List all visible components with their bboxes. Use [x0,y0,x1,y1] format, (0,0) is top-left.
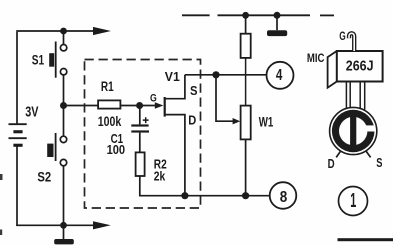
svg-text:D: D [188,114,196,128]
gate lead hook G [349,33,354,51]
switch S1 [49,31,67,103]
svg-text:S: S [376,156,382,170]
wire left battery rail [16,32,18,226]
wire source to terminal 4 [185,74,267,76]
svg-text:1: 1 [350,190,356,212]
wire junction to R1 [64,105,99,107]
junction node W1-rail [242,192,249,199]
edge artifact upper [0,174,3,180]
terminal circle 4 [267,62,294,89]
dashed module box [85,60,201,209]
svg-text:V1: V1 [165,69,180,84]
svg-text:S2: S2 [37,169,51,184]
svg-text:8: 8 [280,189,288,206]
junction node gate [136,102,143,109]
page rule bottom right [338,238,393,241]
junction node ground top [274,12,281,19]
svg-text:266J: 266J [346,58,374,75]
wire positive top rail [16,30,96,32]
top rail segments [182,14,334,16]
svg-text:2k: 2k [154,169,166,184]
wire bottom rail to terminal 8 [140,176,270,196]
transistor V1 [164,75,185,196]
transistor can bottom view [330,107,377,157]
wire gate arrow [140,102,164,108]
svg-text:D: D [328,157,335,171]
terminal circle 8 [270,182,297,209]
svg-text:W1: W1 [259,115,274,130]
junction node bottom rail [60,222,67,229]
svg-text:G: G [339,31,346,43]
wire bottom-left rail [16,224,96,226]
junction node left of R1 [60,102,67,109]
package leads to can [346,83,364,110]
edge artifact lower [0,230,2,236]
svg-text:100: 100 [107,142,126,157]
svg-text:3V: 3V [25,103,38,120]
resistor R2 [136,152,145,176]
svg-text:4: 4 [276,67,283,84]
svg-text:G: G [150,92,157,104]
switch S2 [47,106,66,226]
svg-text:R1: R1 [101,79,114,94]
svg-text:S: S [190,84,198,98]
chassis ground top [267,15,287,36]
junction node drain-rail [181,192,188,199]
microphone package box [328,51,383,88]
resistor R1 [98,100,137,108]
resistor drain top [241,15,251,105]
chassis ground bottom [54,225,74,244]
junction node above S1 [60,28,67,35]
pinout circle 1 [339,187,368,216]
battery 3V [9,124,27,147]
svg-text:MIC: MIC [307,53,325,65]
capacitor C1 [131,106,149,153]
junction node drain resistor top [242,12,249,19]
svg-text:S1: S1 [32,53,45,68]
arrow top-left rail [93,27,111,35]
junction node source wiper [212,71,219,78]
wire wiper [216,75,240,125]
svg-text:100k: 100k [98,113,122,129]
potentiometer W1 [241,106,251,196]
arrow bottom-left rail [93,221,111,229]
